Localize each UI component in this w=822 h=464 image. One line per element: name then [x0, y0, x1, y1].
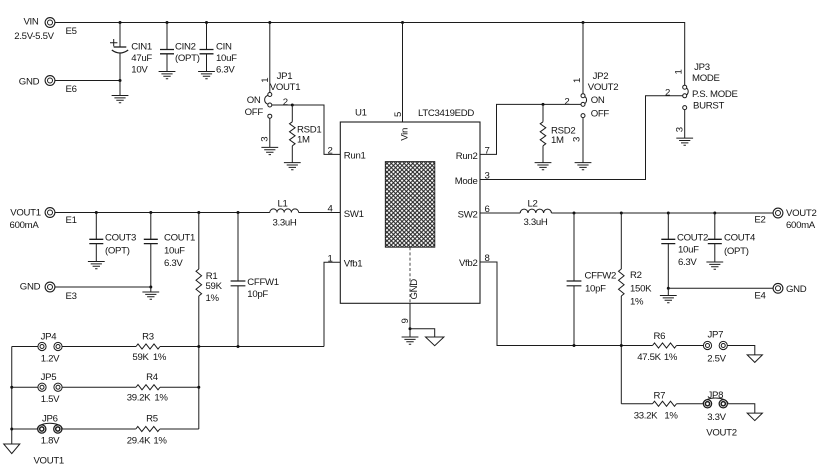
ground at pin 9	[402, 337, 419, 344]
ground under RSD1	[284, 163, 301, 170]
inductor L1	[270, 198, 299, 228]
op-amp U1 LTC3419EDD box	[327, 108, 489, 324]
capacitor COUT3	[89, 211, 136, 262]
junction RSD2 top	[542, 103, 545, 106]
svg-text:GND: GND	[409, 279, 420, 300]
svg-text:39.2K: 39.2K	[127, 392, 151, 403]
svg-text:VOUT2: VOUT2	[706, 428, 737, 439]
ground under CIN1	[112, 96, 129, 103]
resistor R2	[619, 212, 653, 404]
svg-text:COUT2: COUT2	[677, 232, 708, 243]
chassis triangle VOUT1	[4, 444, 64, 464]
svg-text:CIN1: CIN1	[131, 42, 152, 53]
svg-text:R3: R3	[142, 332, 154, 343]
wire VIN rail	[55, 23, 685, 86]
svg-text:P.S. MODE: P.S. MODE	[692, 89, 738, 100]
junction rail JP5	[10, 386, 13, 389]
svg-text:3: 3	[259, 137, 270, 142]
svg-text:(OPT): (OPT)	[175, 53, 200, 64]
ground under COUT2	[660, 296, 677, 303]
svg-text:10pF: 10pF	[585, 284, 606, 295]
capacitor COUT4	[708, 212, 756, 263]
inductor L2	[520, 199, 551, 228]
svg-text:600mA: 600mA	[786, 220, 816, 231]
junction rail JP6	[10, 428, 13, 431]
svg-text:GND: GND	[20, 282, 41, 293]
svg-text:E5: E5	[66, 26, 77, 37]
capacitor CIN1	[110, 21, 152, 96]
svg-text:JP4: JP4	[41, 332, 58, 343]
svg-text:E2: E2	[754, 215, 765, 226]
svg-text:59K: 59K	[132, 352, 149, 363]
jumper JP5	[38, 372, 62, 405]
svg-text:BURST: BURST	[693, 101, 724, 112]
ground under RSD2	[535, 163, 552, 170]
svg-text:1.2V: 1.2V	[41, 354, 60, 365]
svg-text:E4: E4	[754, 291, 766, 302]
capacitor CFFW2	[567, 212, 616, 346]
exposed pad (crosshatch)	[385, 162, 435, 304]
svg-text:10V: 10V	[131, 64, 148, 75]
jumper JP8 (shunted)	[703, 390, 737, 439]
svg-text:1%: 1%	[664, 411, 678, 422]
svg-text:E1: E1	[66, 215, 77, 226]
ground under JP2 pin 3	[575, 163, 592, 170]
svg-text:Mode: Mode	[455, 176, 478, 187]
junction R1/R4	[197, 386, 200, 389]
svg-text:CIN2: CIN2	[175, 42, 196, 53]
svg-text:10uF: 10uF	[678, 245, 699, 256]
svg-text:ON: ON	[591, 95, 605, 106]
junction R1/R3	[197, 345, 200, 348]
svg-text:33.2K: 33.2K	[634, 411, 658, 422]
svg-text:CFFW1: CFFW1	[247, 277, 279, 288]
svg-text:10uF: 10uF	[216, 53, 237, 64]
svg-text:JP6: JP6	[42, 414, 58, 425]
svg-text:2: 2	[665, 88, 670, 99]
junction CFFW2/Vfb2	[573, 344, 576, 347]
svg-text:COUT3: COUT3	[105, 233, 136, 244]
wire Vfb2	[480, 262, 755, 355]
svg-text:COUT1: COUT1	[164, 233, 195, 244]
terminal E6 GND	[19, 76, 77, 95]
junction CFFW1/R3	[237, 345, 240, 348]
svg-text:1%: 1%	[630, 296, 644, 307]
svg-text:3: 3	[484, 170, 489, 181]
wire R4 row	[12, 386, 199, 388]
svg-text:1%: 1%	[664, 352, 678, 363]
svg-text:CFFW2: CFFW2	[585, 270, 617, 281]
jumper JP3	[665, 62, 738, 138]
svg-text:R5: R5	[146, 414, 158, 425]
svg-text:R2: R2	[630, 270, 642, 281]
svg-text:150K: 150K	[630, 283, 652, 294]
capacitor CFFW1	[231, 211, 279, 347]
chassis triangle at JP8	[747, 413, 762, 421]
ground under COUT3	[88, 262, 105, 269]
svg-text:1.5V: 1.5V	[41, 394, 60, 405]
wire left rail	[11, 347, 13, 445]
resistor RSD1	[290, 105, 322, 163]
svg-text:LTC3419EDD: LTC3419EDD	[418, 108, 474, 119]
svg-text:L2: L2	[527, 199, 537, 210]
resistor RSD2	[540, 104, 575, 162]
svg-text:Vfb1: Vfb1	[344, 258, 363, 269]
svg-text:JP2: JP2	[593, 71, 609, 82]
resistor R4	[127, 372, 169, 403]
wire R7 row	[621, 404, 755, 413]
wire VOUT1 row	[55, 212, 340, 214]
svg-text:MODE: MODE	[692, 73, 720, 84]
svg-text:6.3V: 6.3V	[678, 257, 697, 268]
svg-text:Vin: Vin	[400, 128, 411, 141]
resistor R6	[637, 331, 678, 363]
svg-text:1%: 1%	[153, 435, 167, 446]
svg-text:SW2: SW2	[458, 209, 478, 220]
svg-text:1%: 1%	[153, 352, 167, 363]
wire Vfb1	[324, 262, 340, 346]
svg-text:JP1: JP1	[277, 71, 293, 82]
svg-text:59K: 59K	[206, 281, 223, 292]
svg-text:E6: E6	[66, 84, 77, 95]
jumper JP4	[38, 332, 62, 365]
svg-text:1%: 1%	[154, 392, 168, 403]
terminal E1 VOUT1	[10, 208, 77, 232]
svg-text:CIN: CIN	[216, 42, 232, 53]
capacitor CIN	[200, 21, 238, 75]
wire JP3 pin2 to Mode	[480, 96, 683, 180]
wire SW2 row	[480, 212, 773, 214]
svg-text:2.5V: 2.5V	[707, 354, 726, 365]
svg-text:6.3V: 6.3V	[216, 64, 235, 75]
wire JP2 pin2 to Run2	[480, 104, 581, 154]
svg-text:R4: R4	[146, 372, 159, 383]
svg-text:29.4K: 29.4K	[127, 435, 151, 446]
ground under COUT4	[706, 262, 723, 269]
svg-text:1: 1	[674, 69, 685, 74]
svg-text:1%: 1%	[206, 293, 220, 304]
capacitor COUT1	[144, 211, 195, 292]
wire Vin pin 5	[401, 21, 404, 122]
svg-text:2: 2	[283, 97, 288, 108]
svg-text:VOUT1: VOUT1	[270, 82, 301, 93]
jumper JP1	[245, 21, 301, 147]
resistor R1	[196, 211, 223, 429]
svg-text:1M: 1M	[297, 135, 310, 146]
svg-text:3.3uH: 3.3uH	[272, 217, 296, 228]
jumper JP2	[564, 21, 618, 163]
jumper JP7	[703, 330, 727, 365]
svg-text:6.3V: 6.3V	[164, 258, 183, 269]
svg-text:SW1: SW1	[344, 209, 364, 220]
ground under COUT1	[142, 292, 159, 299]
svg-text:47.5K: 47.5K	[637, 352, 661, 363]
svg-text:600mA: 600mA	[10, 220, 40, 231]
wire E6 to CIN1	[55, 80, 120, 82]
svg-text:(OPT): (OPT)	[105, 246, 130, 257]
jumper JP6 (shunted)	[37, 414, 62, 447]
svg-text:10pF: 10pF	[247, 289, 268, 300]
svg-text:1: 1	[260, 78, 271, 83]
svg-text:7: 7	[484, 145, 489, 156]
terminal E2 VOUT2	[754, 208, 816, 231]
svg-text:1: 1	[572, 78, 583, 83]
capacitor CIN2	[160, 21, 200, 72]
terminal E4 GND	[754, 283, 806, 301]
svg-text:1.8V: 1.8V	[41, 436, 60, 447]
svg-text:JP7: JP7	[707, 330, 723, 341]
resistor R3	[132, 332, 166, 363]
svg-text:VOUT1: VOUT1	[33, 455, 64, 464]
svg-text:OFF: OFF	[591, 108, 610, 119]
ground under CIN2	[159, 72, 176, 79]
svg-text:E3: E3	[66, 291, 77, 302]
svg-text:3: 3	[572, 137, 583, 142]
capacitor COUT2	[661, 212, 708, 296]
svg-text:ON: ON	[247, 95, 261, 106]
terminal E5 VIN	[14, 17, 76, 42]
wire JP1 pin2 to Run1	[272, 105, 341, 154]
svg-text:2.5V-5.5V: 2.5V-5.5V	[14, 31, 54, 42]
chassis triangle at pin 9	[426, 337, 444, 346]
svg-text:3.3V: 3.3V	[707, 412, 726, 423]
wire pin 9 to ground	[409, 303, 435, 337]
ground under CIN	[198, 72, 215, 79]
svg-text:Run2: Run2	[456, 151, 478, 162]
svg-text:COUT4: COUT4	[724, 232, 756, 243]
svg-text:JP3: JP3	[694, 62, 710, 73]
svg-text:OFF: OFF	[245, 107, 264, 118]
wire R3 row	[12, 346, 324, 348]
terminal E3 GND	[20, 282, 77, 303]
svg-text:3: 3	[675, 127, 686, 132]
resistor R7	[634, 391, 679, 422]
svg-text:10uF: 10uF	[164, 245, 185, 256]
svg-text:L1: L1	[277, 198, 287, 209]
svg-text:1M: 1M	[551, 135, 564, 146]
svg-text:JP8: JP8	[707, 390, 723, 401]
svg-text:3.3uH: 3.3uH	[523, 217, 547, 228]
svg-text:GND: GND	[786, 284, 807, 295]
chassis triangle at JP7	[747, 355, 762, 363]
svg-text:2: 2	[564, 97, 569, 108]
svg-text:JP5: JP5	[41, 372, 57, 383]
svg-text:R7: R7	[653, 391, 665, 402]
wire E3 to COUT1	[55, 286, 151, 288]
junction R2/Vfb2	[620, 344, 623, 347]
svg-text:Run1: Run1	[344, 150, 366, 161]
ground under JP3 pin 3	[676, 138, 693, 145]
svg-text:47uF: 47uF	[131, 53, 152, 64]
svg-text:VIN: VIN	[23, 17, 38, 28]
resistor R5	[127, 414, 168, 447]
svg-text:U1: U1	[355, 108, 367, 119]
svg-text:GND: GND	[19, 77, 40, 88]
svg-text:VOUT1: VOUT1	[10, 208, 41, 219]
svg-text:Vfb2: Vfb2	[459, 258, 478, 269]
svg-text:VOUT2: VOUT2	[786, 208, 817, 219]
svg-text:VOUT2: VOUT2	[588, 82, 619, 93]
junction RSD1 top	[291, 104, 294, 107]
svg-text:(OPT): (OPT)	[724, 246, 749, 257]
wire R5 row	[12, 428, 199, 430]
wire E4 row	[668, 287, 773, 289]
svg-text:2: 2	[327, 145, 332, 156]
ground under JP1 pin 3	[261, 147, 278, 154]
svg-text:R6: R6	[653, 331, 665, 342]
